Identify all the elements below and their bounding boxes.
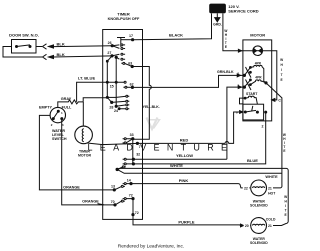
svg-text:T: T bbox=[285, 209, 287, 213]
timer terminal blue bbox=[132, 162, 135, 165]
svg-text:GRAY: GRAY bbox=[61, 97, 72, 101]
hot water valve solenoid bbox=[251, 180, 267, 196]
svg-text:SERVICE CORD: SERVICE CORD bbox=[228, 9, 258, 14]
svg-text:LT. BLUE: LT. BLUE bbox=[78, 75, 96, 80]
wire YELLOW bbox=[133, 158, 227, 160]
svg-text:I: I bbox=[281, 68, 282, 72]
start winding left loop bbox=[240, 98, 246, 104]
wire protector right to C bbox=[263, 51, 277, 100]
label WHITE vertical (valve common cold) bbox=[284, 195, 287, 217]
svg-text:22: 22 bbox=[244, 187, 248, 191]
timer terminal 7 bbox=[136, 142, 139, 145]
timer terminal 70 bbox=[113, 203, 116, 206]
timer terminal 33 bbox=[131, 137, 134, 140]
wire BLK bottom to timer 27 bbox=[54, 56, 113, 57]
svg-text:Rendered by LeadVenture, Inc.: Rendered by LeadVenture, Inc. bbox=[118, 243, 184, 249]
wire WHITE long to cold valve bbox=[117, 168, 288, 225]
svg-text:PURPLE: PURPLE bbox=[178, 219, 195, 224]
svg-text:SOLENOID: SOLENOID bbox=[250, 203, 268, 207]
label WHITE vertical (plug) bbox=[224, 29, 227, 49]
svg-text:20: 20 bbox=[245, 224, 249, 228]
wire ORANGE 2 bbox=[62, 119, 115, 205]
timer terminal 28 bbox=[107, 97, 111, 102]
timer terminal 63 bbox=[131, 65, 134, 68]
timer internal vertical V2 bbox=[115, 57, 117, 106]
svg-text:27: 27 bbox=[107, 51, 111, 55]
water level switch body bbox=[50, 107, 65, 122]
door switch S1 contacts bbox=[15, 45, 18, 48]
wire PINK to hot valve 22 bbox=[131, 184, 250, 188]
water level switch contacts bbox=[57, 110, 60, 113]
svg-text:2: 2 bbox=[262, 124, 264, 128]
svg-text:YELLOW: YELLOW bbox=[176, 153, 193, 158]
svg-text:I: I bbox=[285, 204, 286, 208]
svg-text:W: W bbox=[284, 195, 287, 199]
wire BLUE to start switch 2 bbox=[133, 121, 265, 164]
wire timer motor top lead bbox=[82, 102, 84, 126]
timer terminal 72 upper bbox=[131, 197, 134, 200]
timer internal vertical V1 bbox=[107, 56, 112, 98]
svg-text:KNOB-PUSH OFF: KNOB-PUSH OFF bbox=[108, 17, 140, 21]
wire junction to white vertical bbox=[266, 83, 282, 188]
wire yellow vertical to motor 3 bbox=[227, 87, 244, 159]
svg-text:SWITCH: SWITCH bbox=[52, 137, 67, 141]
svg-text:26: 26 bbox=[108, 41, 112, 45]
timer contact dot V2 head bbox=[115, 56, 118, 59]
hot valve terminal 22 bbox=[243, 186, 249, 191]
wire BLK top to timer 26 bbox=[54, 45, 113, 48]
timer terminal 15 dots on LT.BLUE bbox=[106, 81, 109, 84]
connector arrow top bbox=[49, 45, 54, 48]
svg-text:24: 24 bbox=[114, 109, 118, 113]
svg-text:21: 21 bbox=[268, 224, 272, 228]
motor terminal 5 bbox=[243, 74, 246, 77]
svg-text:DOOR SW. N.O.: DOOR SW. N.O. bbox=[9, 33, 39, 38]
svg-text:72: 72 bbox=[135, 211, 139, 215]
svg-text:GRD.: GRD. bbox=[213, 23, 222, 27]
svg-text:32: 32 bbox=[136, 152, 140, 156]
wire ORANGE 1 bbox=[39, 115, 114, 189]
motor overload protector bbox=[253, 50, 263, 52]
timer motor body bbox=[75, 126, 93, 144]
label WHITE vertical (valve common hot) bbox=[283, 133, 286, 153]
motor box bbox=[243, 40, 272, 121]
wire gray jog into timer bbox=[83, 98, 107, 102]
svg-text:70: 70 bbox=[111, 200, 115, 204]
cold valve terminal 20 bbox=[244, 223, 250, 228]
svg-text:E: E bbox=[283, 149, 285, 153]
timer terminal 32 bbox=[132, 158, 135, 161]
wire white plug pin to motor P bbox=[223, 13, 253, 50]
svg-text:W: W bbox=[280, 58, 283, 62]
wire PURPLE to cold valve 20 bbox=[133, 215, 251, 226]
timer off contact T-bar bbox=[117, 38, 125, 47]
svg-text:17: 17 bbox=[129, 34, 133, 38]
timer internal vertical 33-32 bbox=[132, 139, 134, 164]
wire WHITE short to hot valve bbox=[117, 169, 282, 173]
svg-text:14: 14 bbox=[127, 178, 131, 182]
wire GRAY with loop bbox=[58, 100, 83, 108]
svg-text:WHITE: WHITE bbox=[170, 163, 183, 168]
svg-text:E: E bbox=[225, 45, 227, 49]
svg-text:COLD: COLD bbox=[266, 217, 276, 221]
svg-text:62: 62 bbox=[130, 83, 134, 87]
svg-text:E: E bbox=[281, 78, 283, 82]
cold valve terminal 21 bbox=[267, 223, 273, 228]
timer terminal white junction bbox=[116, 168, 119, 171]
wire door switch right lead bbox=[36, 46, 42, 48]
timer terminal 17 bbox=[121, 39, 133, 41]
watermark logo bbox=[147, 118, 160, 130]
svg-text:RED: RED bbox=[180, 138, 189, 143]
connector arrow bottom bbox=[49, 55, 54, 58]
svg-text:SOLENOID: SOLENOID bbox=[250, 241, 268, 245]
motor terminal 3 bbox=[243, 86, 246, 89]
wire BLACK timer17 to plug bbox=[133, 13, 212, 39]
svg-text:PINK: PINK bbox=[179, 178, 189, 183]
start switch box bbox=[243, 104, 264, 120]
svg-text:START: START bbox=[246, 92, 258, 96]
start switch contacts bbox=[244, 111, 247, 114]
svg-text:72: 72 bbox=[129, 193, 133, 197]
svg-text:WHITE: WHITE bbox=[265, 175, 278, 179]
timer terminal 13 bbox=[113, 188, 116, 191]
svg-text:15: 15 bbox=[110, 85, 114, 89]
svg-text:TIMER: TIMER bbox=[117, 12, 130, 17]
timer terminal 72 lower bbox=[132, 199, 134, 215]
svg-text:HOT: HOT bbox=[268, 191, 276, 195]
timer terminal 62 bbox=[131, 86, 134, 89]
svg-text:E: E bbox=[285, 213, 287, 217]
svg-text:MOTOR: MOTOR bbox=[250, 33, 265, 38]
svg-text:ORANGE: ORANGE bbox=[63, 185, 80, 189]
timer motor coil bbox=[82, 129, 84, 142]
svg-text:BLK: BLK bbox=[57, 52, 65, 57]
hot valve terminal 21 bbox=[267, 186, 273, 191]
wire RED timer7 to motor 6 bbox=[137, 112, 239, 143]
start switch terminal 2 bbox=[264, 111, 267, 114]
svg-text:33: 33 bbox=[130, 133, 134, 137]
connector chevron bottom bbox=[43, 54, 47, 59]
svg-text:ORANGE: ORANGE bbox=[82, 200, 99, 204]
svg-text:GRN-BLK: GRN-BLK bbox=[217, 70, 234, 74]
svg-text:13: 13 bbox=[111, 184, 115, 188]
wire 62 to motor 5 (GRN-BLK) bbox=[132, 75, 243, 87]
wire 63 down to 33 with hop bbox=[132, 67, 151, 140]
connector chevron top bbox=[43, 44, 47, 49]
wire timer motor to timer 7 bbox=[87, 143, 137, 145]
door switch S1 box bbox=[12, 40, 37, 54]
svg-text:7: 7 bbox=[139, 145, 141, 149]
motor winding junction bbox=[264, 81, 267, 84]
svg-text:BLUE: BLUE bbox=[247, 158, 258, 163]
svg-text:BLK: BLK bbox=[57, 41, 65, 46]
cold water valve solenoid bbox=[251, 218, 267, 234]
wire door switch left loop bbox=[3, 47, 42, 58]
timer box bbox=[103, 30, 143, 220]
svg-text:MOTOR: MOTOR bbox=[78, 153, 91, 157]
label WHITE vertical (protector) bbox=[280, 58, 283, 82]
svg-text:28: 28 bbox=[109, 106, 113, 110]
svg-text:EMPTY: EMPTY bbox=[39, 106, 53, 110]
plug 120V service cord bbox=[209, 4, 226, 14]
svg-text:4PR: 4PR bbox=[255, 76, 262, 80]
svg-text:T: T bbox=[281, 73, 283, 77]
timer terminal 27 bbox=[110, 54, 113, 57]
svg-text:BLACK: BLACK bbox=[169, 33, 183, 38]
wire LT.BLUE bbox=[77, 82, 124, 102]
timer terminal 26 bbox=[111, 44, 114, 47]
svg-text:21: 21 bbox=[268, 187, 272, 191]
motor speed contacts X bbox=[244, 67, 251, 78]
svg-text:YEL.-BLK.: YEL.-BLK. bbox=[143, 105, 160, 109]
timer terminal 24 bbox=[115, 105, 118, 108]
timer terminal 25 (gray) bbox=[106, 96, 109, 99]
timer terminal 14 bbox=[129, 182, 132, 185]
ground stub bbox=[216, 13, 218, 17]
